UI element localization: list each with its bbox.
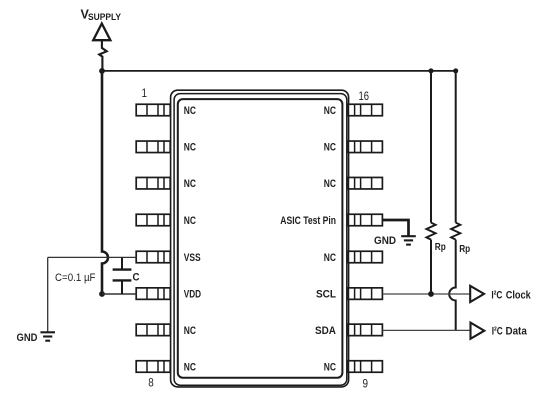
svg-text:C=0.1 µF: C=0.1 µF xyxy=(55,272,96,284)
svg-text:8: 8 xyxy=(148,376,154,390)
svg-text:NC: NC xyxy=(184,361,196,373)
svg-text:SCL: SCL xyxy=(316,289,336,301)
svg-text:GND: GND xyxy=(17,332,38,344)
svg-text:SUPPLY: SUPPLY xyxy=(88,12,122,22)
svg-text:NC: NC xyxy=(324,178,336,190)
svg-text:GND: GND xyxy=(374,235,396,247)
svg-text:NC: NC xyxy=(184,178,196,190)
svg-text:NC: NC xyxy=(184,325,196,337)
svg-text:NC: NC xyxy=(184,105,196,117)
svg-text:9: 9 xyxy=(363,377,369,391)
svg-text:I²C: I²C xyxy=(491,289,502,301)
svg-text:NC: NC xyxy=(324,252,336,264)
svg-text:SDA: SDA xyxy=(315,325,336,337)
svg-text:NC: NC xyxy=(184,215,196,227)
svg-text:C: C xyxy=(133,272,140,284)
svg-text:ASIC Test Pin: ASIC Test Pin xyxy=(280,215,336,227)
svg-text:Rp: Rp xyxy=(459,243,470,255)
svg-text:I²C: I²C xyxy=(492,326,503,338)
svg-text:NC: NC xyxy=(324,142,336,154)
svg-text:1: 1 xyxy=(142,86,148,100)
svg-text:Clock: Clock xyxy=(506,289,532,301)
svg-text:VDD: VDD xyxy=(184,289,202,301)
svg-text:16: 16 xyxy=(359,89,370,103)
svg-text:Rp: Rp xyxy=(435,241,446,253)
svg-text:NC: NC xyxy=(324,105,336,117)
svg-text:NC: NC xyxy=(184,142,196,154)
svg-text:Data: Data xyxy=(506,326,528,338)
svg-text:NC: NC xyxy=(324,361,336,373)
svg-text:VSS: VSS xyxy=(184,252,201,264)
